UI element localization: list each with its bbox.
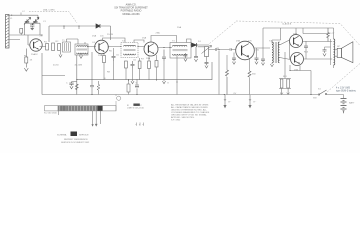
svg-text:10K CT: 10K CT [327, 33, 335, 35]
IF transformer T1 [75, 44, 88, 55]
ground chevron bus A left [131, 80, 134, 84]
speaker SP1 [337, 42, 353, 63]
ground chevron C11 [232, 62, 235, 65]
dashed link volume to switch [210, 21, 360, 93]
capacitor C12 plates [255, 58, 259, 61]
svg-text:101: 101 [100, 35, 104, 37]
ground chevron C13 [261, 63, 264, 66]
wire Q2 components to bus [104, 48, 114, 80]
wire main signal path [40, 45, 271, 48]
wire bias resistors [279, 52, 291, 95]
wire top AVC line [49, 26, 111, 42]
wire VR1 wiper chain [198, 47, 236, 50]
wire Q4 collector down [234, 28, 263, 95]
svg-text:E~: E~ [254, 101, 257, 103]
wire output stage top rail [263, 28, 334, 40]
svg-text:C1: C1 [43, 21, 47, 23]
ground chevron T4 [270, 63, 273, 67]
svg-text:LIMITS 525-1610: LIMITS 525-1610 [127, 108, 145, 110]
svg-text:S.F. 1962: S.F. 1962 [171, 119, 181, 121]
capacitor C20 [90, 52, 94, 94]
svg-text:4 x 1.5V UM3: 4 x 1.5V UM3 [336, 88, 351, 90]
wire pot return to bus B [219, 51, 227, 95]
ground chevron C12 [255, 62, 258, 65]
wire T5 connections [303, 28, 338, 68]
oscillator coil T1a [63, 42, 71, 52]
capacitor C6 below T2 [131, 61, 135, 69]
ground below C9 [194, 59, 197, 62]
svg-text:R5: R5 [109, 51, 113, 53]
bus B minus line [42, 94, 318, 96]
volume control VR1 [202, 46, 212, 57]
wire output stage bottom [290, 41, 311, 95]
capacitor C2 [30, 23, 34, 27]
svg-text:R7: R7 [141, 59, 145, 61]
wire Q3 collector to T3 top [151, 36, 191, 44]
resistor R6 below T2 [125, 61, 128, 68]
capacitor C8 [184, 53, 188, 58]
wire T1 top stub [67, 39, 86, 44]
svg-text:REPRINT REFERENCE: REPRINT REFERENCE [64, 139, 88, 141]
resistor R2 [46, 44, 49, 51]
resistor R14 zigzag [248, 71, 251, 77]
capacitor C17 [304, 46, 308, 47]
ground below R1 [24, 68, 28, 71]
battery BT1 [341, 99, 347, 114]
variable capacitor C1b [32, 17, 39, 24]
bottom caption [57, 132, 90, 145]
resistor R7 [138, 61, 141, 69]
svg-text:C5: C5 [116, 54, 120, 56]
svg-text:KC 530 1600: KC 530 1600 [44, 113, 58, 115]
capacitor C7 [162, 50, 166, 62]
svg-text:2SA: 2SA [98, 54, 103, 57]
svg-text:BATT: BATT [349, 102, 355, 105]
IF transformer T2 [121, 43, 138, 58]
svg-text:40-50: 40-50 [53, 65, 59, 67]
transistor Q1 converter [30, 39, 42, 51]
svg-text:1K: 1K [30, 59, 33, 61]
svg-text:G: G [167, 83, 169, 85]
svg-text:C6: C6 [133, 59, 137, 61]
wire antenna tap to Q1 base [9, 27, 42, 45]
wire mid components to bus B [177, 56, 224, 95]
diode D1 on top wire [96, 24, 100, 28]
resistor R8 [148, 61, 151, 69]
fold ticks [136, 123, 144, 126]
wire R1 to ground [25, 63, 27, 68]
resistor R21 below bus [127, 84, 130, 92]
svg-text:SCHEMA: SCHEMA [57, 133, 67, 136]
ground chassis arrow b [248, 95, 251, 108]
svg-text:SERVICE DOCUMENT 1962: SERVICE DOCUMENT 1962 [61, 142, 90, 144]
junction dots [41, 25, 311, 95]
wire T4 secondary to Q5 Q6 [272, 40, 291, 60]
svg-text:MODEL AR-666: MODEL AR-666 [122, 13, 140, 16]
wire C7 to bus [163, 61, 165, 80]
capacitor C13 plates [261, 59, 265, 62]
svg-text:type SUM-3 battery: type SUM-3 battery [336, 89, 357, 92]
wire VR1 bottom down [206, 57, 208, 63]
switch SW1 [318, 90, 326, 95]
svg-text:2SA: 2SA [146, 57, 151, 60]
resistor R4 [58, 44, 61, 51]
svg-text:C4: C4 [92, 42, 96, 44]
svg-text:2SA: 2SA [142, 36, 147, 39]
transistor Q3 second IF [144, 42, 158, 56]
capacitor C18 [69, 82, 73, 86]
capacitor C19 [323, 50, 327, 53]
svg-text:C10: C10 [255, 50, 260, 52]
svg-text:S1: S1 [318, 89, 321, 91]
resistor R0 [20, 29, 23, 34]
capacitor C15 series [230, 48, 231, 51]
svg-text:C: C [66, 82, 68, 84]
variable capacitor C1a [24, 17, 31, 24]
svg-text:2SA52: 2SA52 [31, 53, 38, 56]
svg-text:R11: R11 [283, 76, 288, 78]
capacitor C9 [194, 47, 198, 58]
wire antenna top to tuning caps [9, 15, 38, 19]
wire dial cord lines [59, 111, 101, 126]
note paragraph right [171, 103, 210, 121]
svg-text:R13: R13 [304, 52, 309, 54]
capacitor C14 series [216, 48, 217, 51]
svg-text:SP: SP [337, 46, 340, 48]
ground below C8 [184, 59, 187, 62]
transistor Q2 first IF [95, 40, 109, 54]
wire base tie line [289, 40, 291, 60]
wire C18 stub [72, 81, 77, 83]
svg-text:D1: D1 [198, 41, 202, 43]
wire switch to battery [327, 95, 344, 99]
wire Q2 collector to T2 top [103, 38, 145, 43]
svg-text:2N: 2N [40, 35, 43, 37]
detector diode D2 [192, 43, 197, 47]
ground triangle below C2 [30, 28, 34, 31]
transistor Q5 output [290, 35, 303, 48]
svg-text:2SA: 2SA [92, 34, 97, 37]
junction chevron bias a [280, 93, 283, 95]
svg-text:SERVICE: SERVICE [79, 134, 89, 136]
wire Q1 collector to bus B [41, 53, 43, 95]
ground below oscillator [59, 51, 62, 57]
ground chassis arrow a [223, 95, 226, 108]
IF transformer T3 [170, 43, 191, 59]
svg-text:R8: R8 [107, 71, 111, 73]
wire T2 area to bus [126, 68, 133, 80]
resistor R3 [52, 43, 55, 51]
capacitor C21 below bus [135, 85, 139, 87]
value labels scattered [10, 18, 321, 90]
title block text [114, 4, 148, 16]
resistor R20 [97, 81, 100, 94]
dial cord pulley [117, 96, 121, 100]
svg-text:2SA: 2SA [177, 26, 182, 29]
svg-text:R2: R2 [56, 41, 60, 43]
driver transformer T4 [272, 42, 280, 63]
stub antenna top [20, 13, 22, 16]
capacitor C5 [112, 53, 116, 61]
transistor Q6 output [291, 53, 304, 66]
resistor R12 [287, 79, 290, 88]
svg-text:2S 2B: 2S 2B [107, 34, 113, 36]
wire Q1 emitter down [25, 49, 27, 58]
resistor R15 zigzag on rail [327, 28, 330, 42]
antenna rod L1 [6, 15, 10, 49]
resistor R10 zigzag [226, 70, 229, 95]
capacitor C16 [205, 62, 209, 65]
ground below coil [79, 53, 82, 58]
resistor R8b [155, 61, 158, 68]
dial cord dashed line [29, 12, 77, 23]
svg-text:2SA: 2SA [156, 32, 161, 35]
svg-text:CLASS B: CLASS B [282, 23, 292, 26]
svg-text:2SB: 2SB [236, 41, 241, 43]
svg-text:L2: L2 [22, 11, 25, 13]
resistor R1 [25, 57, 28, 63]
svg-text:40-10M: 40-10M [75, 65, 83, 67]
wire R21 [129, 79, 138, 95]
wire C19 stub [325, 47, 331, 50]
svg-text:DIAL CORD: DIAL CORD [43, 9, 55, 12]
bus chassis line [42, 55, 212, 95]
resistor R22 zigzag [75, 84, 78, 90]
ground chevron bus A right [162, 80, 165, 84]
wire Q3 bias to bus [140, 56, 149, 80]
resistor R11 [280, 79, 283, 88]
ground chevron C18 [70, 86, 73, 89]
junction dot antenna top [11, 15, 12, 16]
transistor Q4 driver [236, 41, 255, 60]
svg-text:E~: E~ [229, 101, 232, 103]
capacitor C11 [232, 58, 236, 61]
svg-text:L1: L1 [10, 18, 13, 20]
output transformer T5 [331, 39, 335, 65]
wire below tuning caps [24, 23, 40, 35]
dial scale bar [45, 106, 117, 111]
svg-text:560: 560 [252, 74, 256, 76]
svg-text:SW: SW [313, 98, 317, 100]
resistor R5 [103, 56, 106, 63]
ground chevron VR1 [205, 66, 208, 69]
ground chevron C19 [323, 53, 326, 56]
junction chevron bias b [287, 93, 290, 95]
